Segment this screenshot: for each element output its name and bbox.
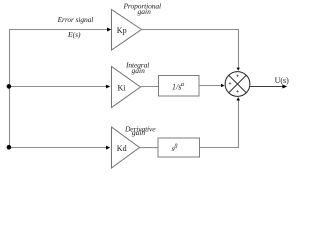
plus sign left xyxy=(229,82,231,84)
svg-text:β: β xyxy=(173,144,177,150)
wire derivative block to summer bottom xyxy=(200,100,239,148)
plus sign top xyxy=(236,75,238,77)
svg-text:E(s): E(s) xyxy=(67,30,81,39)
arrowhead into Ki xyxy=(106,85,110,89)
wire summer to output xyxy=(250,86,283,88)
plus sign bottom xyxy=(236,90,238,92)
svg-text:Ki: Ki xyxy=(118,83,127,92)
svg-text:Kp: Kp xyxy=(117,26,127,35)
amplifier Kd triangle xyxy=(112,127,140,168)
wire Kp output to summer top xyxy=(142,30,239,69)
svg-text:Error signal: Error signal xyxy=(57,15,94,24)
wire Ki to integral block xyxy=(141,86,159,88)
svg-text:α: α xyxy=(181,81,185,88)
arrowhead into summer left xyxy=(221,84,225,88)
svg-text:Kd: Kd xyxy=(117,144,127,153)
wire vertical bus xyxy=(9,30,11,148)
wire Kd to derivative block xyxy=(140,147,159,149)
svg-text:gain: gain xyxy=(138,7,152,16)
amplifier Ki triangle xyxy=(112,67,141,108)
amplifier Kp triangle xyxy=(112,10,142,51)
summing junction X cross xyxy=(229,75,247,93)
arrowhead into Kd xyxy=(106,146,110,150)
svg-text:gain: gain xyxy=(132,66,146,75)
arrowhead up into summer xyxy=(236,97,240,100)
wire to Kd xyxy=(9,147,107,149)
arrowhead output xyxy=(282,85,287,89)
wire to Ki xyxy=(9,86,107,88)
wire integral block to summer xyxy=(199,85,222,87)
svg-text:U(s): U(s) xyxy=(275,76,290,85)
block integral 1/s^a xyxy=(159,76,200,97)
block derivative s^b xyxy=(158,138,200,157)
arrowhead down into summer xyxy=(237,68,240,71)
arrowhead into Kp xyxy=(107,28,111,32)
wire error signal to Kp xyxy=(9,29,108,31)
node junction dot upper xyxy=(7,84,12,89)
svg-text:gain: gain xyxy=(132,128,146,137)
summing junction circle xyxy=(225,72,250,97)
node junction dot lower xyxy=(7,145,12,150)
